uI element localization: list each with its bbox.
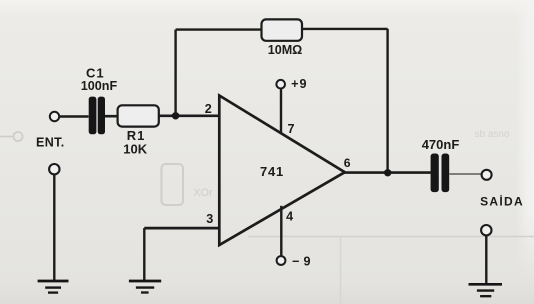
svg-text:6: 6: [344, 156, 351, 170]
wire R1 to op-amp pin 2: [159, 115, 220, 118]
wire feedback vertical right: [386, 29, 388, 173]
terminal ENT ground: [49, 164, 59, 174]
svg-text:470nF: 470nF: [422, 137, 460, 152]
wire output ground terminal to ground: [485, 236, 487, 284]
svg-text:4: 4: [286, 209, 293, 223]
svg-text:10MΩ: 10MΩ: [268, 43, 303, 57]
svg-text:sb asno: sb asno: [474, 129, 509, 140]
wire pin 7 to +9 terminal: [280, 89, 282, 135]
svg-text:SAİDA: SAİDA: [480, 193, 524, 208]
capacitor C1 plates: [89, 97, 105, 135]
svg-text:ENT.: ENT.: [36, 136, 65, 150]
wire feedback vertical left: [174, 30, 176, 116]
ground output: [469, 284, 503, 296]
ghost line vertical (show-through): [340, 237, 342, 304]
wire pin 3 vertical to ground: [143, 228, 145, 280]
node junction at inverting input: [172, 112, 179, 119]
terminal output ground: [481, 225, 491, 235]
capacitor 470nF plates: [431, 154, 450, 193]
terminal +9: [276, 80, 285, 89]
svg-text:XOr: XOr: [193, 187, 213, 199]
svg-text:100nF: 100nF: [81, 79, 118, 93]
wire output pin 6: [344, 171, 431, 174]
wire feedback top right segment: [302, 28, 388, 30]
op-amp U1 741 triangle: [219, 96, 344, 246]
terminal SAIDA output: [482, 170, 492, 180]
svg-text:+9: +9: [291, 77, 307, 91]
svg-text:−9: −9: [292, 255, 315, 269]
ghost line horizontal (show-through): [248, 236, 534, 238]
ghost resistor (show-through): [162, 164, 184, 205]
svg-text:10K: 10K: [123, 142, 147, 157]
node junction at output: [384, 169, 391, 176]
wire C1 to R1: [105, 115, 118, 118]
ghost circle near ENT (show-through): [0, 132, 23, 141]
wire ENT ground terminal to ground: [53, 175, 55, 280]
wire input terminal to C1: [59, 115, 88, 118]
wire 470nF to output terminal: [449, 173, 482, 175]
resistor R1: [118, 105, 159, 126]
svg-text:2: 2: [205, 102, 212, 116]
wire pin 4 to -9 terminal: [280, 206, 282, 256]
resistor 10M feedback: [262, 19, 303, 40]
svg-text:7: 7: [287, 122, 294, 136]
ground pin 3: [129, 281, 161, 293]
terminal ENT input: [50, 112, 59, 121]
wire feedback top left segment: [176, 28, 262, 30]
wire pin 3 horizontal: [144, 227, 219, 230]
ground ENT: [38, 281, 69, 293]
svg-text:741: 741: [260, 164, 284, 179]
terminal -9: [277, 256, 286, 265]
svg-text:3: 3: [206, 212, 213, 226]
